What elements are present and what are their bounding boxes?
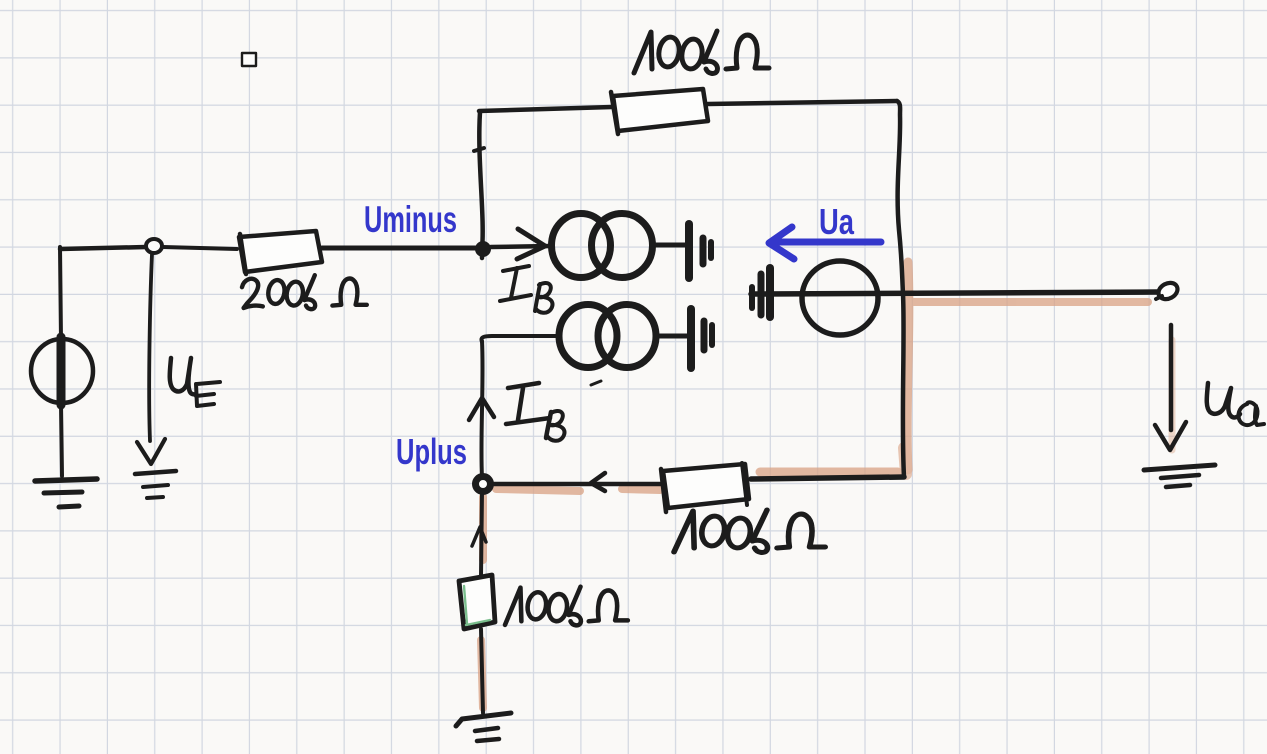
node Uminus junction dot [475,241,491,257]
label UE [170,358,220,406]
wire source pair lower to ground [657,334,687,339]
ground rotated upper [685,224,693,278]
ground GND_A [1144,465,1215,470]
arrow on bottom wire [591,473,605,491]
wire input left vertical [60,247,61,340]
source Q_E circle [31,339,93,403]
tan highlighter marks [481,262,1172,708]
resistor R2 100k body [613,89,708,131]
source output circle [802,261,878,335]
arrow small up on lower wire [472,527,486,546]
resistor R3 100k body [663,464,749,508]
wire top horizontal to R2 [479,107,612,111]
arrow UA down [1169,325,1174,430]
wire right vertical upper [897,101,903,294]
svg-text:Uminus: Uminus [364,199,457,240]
wire source pair upper to ground [653,243,686,248]
source pair lower circles [559,305,617,368]
ground rotated output [749,287,755,308]
resistor R1 200k body [239,231,322,272]
label UA [1207,383,1264,425]
source pair upper circles [552,214,611,278]
wire Uplus up [481,341,482,477]
resistor R4 100k body vertical [459,575,495,629]
label R4 100kOhm [505,587,628,626]
ground GND_P [456,713,511,726]
terminal output open loop [1156,280,1181,303]
ground GND_E [135,471,176,474]
wire terminal to R1 [163,247,237,249]
arrow Ua blue [769,227,881,259]
wire R3 to node Uplus [494,482,661,487]
label R3 100kOhm [674,510,825,552]
stray mark square [242,53,256,66]
label IB upper [500,266,553,313]
arrow IB up [469,398,494,420]
label IB lower [506,383,565,441]
wire node Uminus up [479,112,482,258]
label R2 100kOhm [634,31,769,73]
svg-text:Ua: Ua [819,201,855,242]
node Uplus ring [476,477,491,492]
wire output through source [751,292,1159,294]
wire UE vertical [149,254,152,441]
wire bottom horizontal right [751,477,904,479]
label R1 200kOhm [242,275,367,309]
ground rotated lower [687,309,695,368]
arrow into source pair upper [517,229,545,259]
arrow UE down [137,439,165,464]
wire source to ground [61,404,62,476]
resistor R4 green edge [464,586,490,625]
wire Uplus down [481,492,482,576]
wire R4 to ground [481,629,483,713]
wire corner to source pair lower [481,336,557,342]
wire node Uminus to source pair upper [491,246,551,247]
svg-text:Uplus: Uplus [396,431,467,472]
wire input top-left horizontal [60,247,146,249]
wire right vertical lower [903,294,904,477]
terminal input open circle [146,239,162,253]
wire R2 to top right corner [708,101,897,104]
ground GND1 [35,479,97,481]
source Q_E bar [57,337,66,405]
stray dash [591,381,601,385]
wire R1 to node Uminus [322,246,477,251]
